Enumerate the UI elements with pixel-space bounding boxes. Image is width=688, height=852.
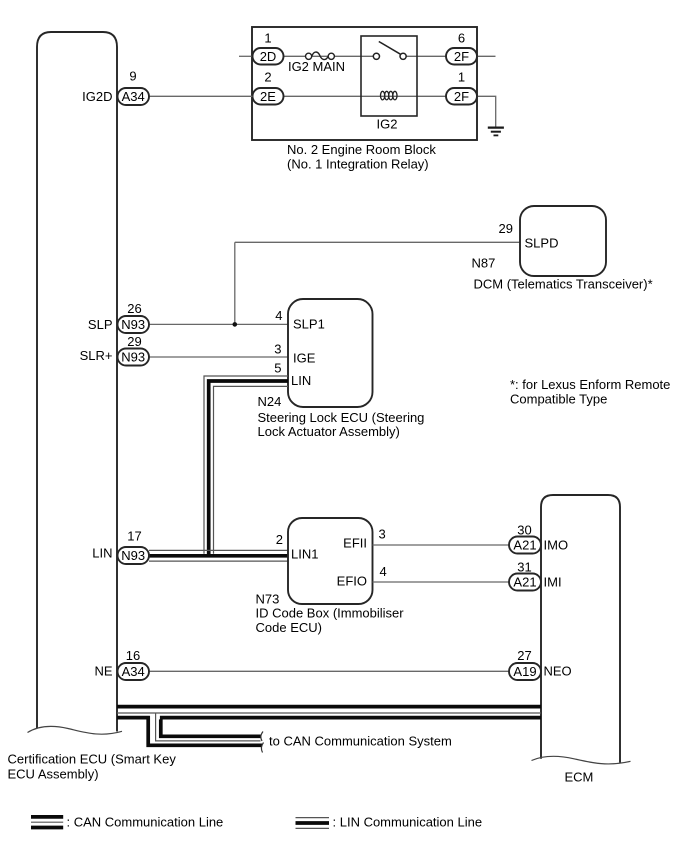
LIN horizontal run N93 to LIN1 (thin top) (149, 549, 288, 551)
svg-text:(No. 1 Integration Relay): (No. 1 Integration Relay) (287, 157, 429, 172)
svg-text:2F: 2F (454, 89, 469, 104)
svg-text:2D: 2D (260, 49, 277, 64)
svg-text:1: 1 (264, 31, 271, 46)
wire to DCM SLPD (235, 241, 520, 243)
svg-text:EFIO: EFIO (337, 574, 367, 589)
svg-text:Certification ECU (Smart Key: Certification ECU (Smart Key (8, 752, 177, 767)
svg-text:27: 27 (517, 648, 531, 663)
svg-text:4: 4 (380, 564, 387, 579)
svg-text:A21: A21 (513, 538, 536, 553)
svg-text:N24: N24 (258, 394, 282, 409)
wire 2E to 2F bottom through coil (284, 95, 447, 97)
relay coil (381, 91, 398, 100)
svg-text:16: 16 (126, 648, 140, 663)
wire stub right of 2F top (477, 55, 496, 57)
Certification ECU (Smart Key ECU Assembly) box (37, 32, 117, 732)
svg-text:IMO: IMO (544, 538, 569, 553)
svg-text:9: 9 (129, 69, 136, 84)
svg-text:N93: N93 (121, 548, 145, 563)
Certification ECU torn bottom wavy edge (28, 726, 123, 734)
wire EFII to A21 (373, 544, 510, 546)
svg-text:ECM: ECM (565, 770, 594, 785)
svg-text:N93: N93 (121, 317, 145, 332)
terminal 2D (253, 48, 284, 65)
terminal A34 pin 16 NE (118, 663, 150, 680)
svg-text:IG2 MAIN: IG2 MAIN (288, 59, 345, 74)
terminal N93 pin 29 SLR+ (118, 349, 150, 366)
svg-text:5: 5 (274, 360, 281, 375)
svg-text:SLP: SLP (88, 317, 113, 332)
CAN branch inner thick (161, 719, 261, 736)
CAN branch outer thick (148, 716, 262, 745)
svg-text:N93: N93 (121, 350, 145, 365)
terminal N93 pin 26 SLP (118, 316, 150, 333)
wire IG2D A34 to 2E (149, 95, 253, 97)
svg-text:17: 17 (127, 529, 141, 544)
svg-text:IG2: IG2 (377, 116, 398, 131)
svg-text:IG2D: IG2D (82, 89, 112, 104)
svg-text:2F: 2F (454, 49, 469, 64)
LIN line thick (209, 381, 288, 556)
svg-text:DCM (Telematics Transceiver)*: DCM (Telematics Transceiver)* (474, 277, 653, 292)
CAN trunk thin line (117, 712, 541, 714)
svg-text:LIN1: LIN1 (291, 547, 318, 562)
svg-text:IMI: IMI (544, 575, 562, 590)
Steering Lock ECU box (288, 299, 373, 407)
LIN horizontal thick (149, 554, 288, 558)
svg-text:SLR+: SLR+ (80, 348, 113, 363)
wire SLR+ to IGE (149, 356, 288, 358)
svg-text:A19: A19 (513, 664, 536, 679)
svg-text:Code ECU): Code ECU) (256, 620, 322, 635)
terminal 2E (253, 88, 284, 105)
svg-text:NE: NE (94, 664, 112, 679)
svg-text:31: 31 (517, 560, 531, 575)
terminal A21 pin 30 IMO (509, 537, 541, 554)
wire relay to 2F top (406, 55, 446, 57)
relay IG2 box (361, 36, 417, 116)
svg-text:ID Code Box (Immobiliser: ID Code Box (Immobiliser (256, 606, 405, 621)
wire 2F bottom to ground (477, 96, 496, 127)
svg-text:Lock Actuator Assembly): Lock Actuator Assembly) (258, 424, 400, 439)
svg-text:A34: A34 (122, 664, 145, 679)
svg-text:N73: N73 (256, 592, 280, 607)
svg-text:EFII: EFII (343, 536, 367, 551)
LIN horizontal thin bottom (149, 560, 288, 562)
svg-text:6: 6 (458, 31, 465, 46)
svg-text:*: for Lexus Enform Remote: *: for Lexus Enform Remote (510, 377, 670, 392)
CAN branch thin (156, 714, 261, 741)
svg-text:26: 26 (127, 301, 141, 316)
ECM box (541, 495, 620, 763)
svg-text:NEO: NEO (544, 664, 572, 679)
legend LIN symbol (296, 817, 330, 819)
svg-text:: LIN Communication Line: : LIN Communication Line (333, 815, 483, 830)
junction node on SLP wire (233, 322, 238, 327)
wire DCM vertical drop (234, 242, 236, 324)
relay switch contacts (373, 42, 406, 60)
svg-text:2: 2 (276, 532, 283, 547)
svg-text:IGE: IGE (293, 351, 316, 366)
svg-text:29: 29 (499, 221, 513, 236)
terminal A34 pin 9 IG2D (118, 88, 150, 105)
svg-text:SLP1: SLP1 (293, 316, 325, 331)
svg-text:29: 29 (127, 334, 141, 349)
terminal 2F pin 6 (446, 48, 477, 65)
terminal 2F pin 1 (446, 88, 477, 105)
svg-text:ECU Assembly): ECU Assembly) (8, 767, 99, 782)
wire SLP to SLP1 (149, 323, 288, 325)
wire 2D to relay (fuse segment) (284, 55, 374, 57)
svg-text:N87: N87 (472, 256, 496, 271)
svg-text:3: 3 (274, 342, 281, 357)
svg-text:LIN: LIN (291, 373, 311, 388)
svg-text:4: 4 (275, 308, 282, 323)
ID Code Box (288, 518, 373, 604)
svg-text:to CAN Communication System: to CAN Communication System (269, 734, 452, 749)
DCM (Telematics Transceiver) box (520, 206, 606, 276)
svg-text:2: 2 (264, 70, 271, 85)
LIN line: steering lock LIN pin to corner, down to tee (outer thin) (204, 376, 288, 554)
svg-text:3: 3 (379, 527, 386, 542)
CAN trunk bottom thick line (left of branch) (117, 716, 150, 720)
legend CAN symbol (31, 815, 63, 819)
wire EFIO to A21 (373, 581, 510, 583)
fuse IG2 MAIN (306, 52, 335, 60)
svg-text:A21: A21 (513, 575, 536, 590)
svg-text:Steering Lock ECU (Steering: Steering Lock ECU (Steering (258, 410, 425, 425)
svg-text:1: 1 (458, 70, 465, 85)
CAN trunk bottom thick line (right of branch) (160, 716, 541, 720)
LIN line inner thin (214, 386, 289, 553)
CAN branch end break marks (261, 732, 263, 742)
svg-text:Compatible Type: Compatible Type (510, 392, 607, 407)
svg-text:: CAN Communication Line: : CAN Communication Line (67, 815, 224, 830)
terminal A19 pin 27 NEO (509, 663, 541, 680)
CAN trunk top thick line (117, 705, 541, 709)
terminal N93 pin 17 LIN (118, 547, 150, 564)
wire NE to NEO (149, 670, 509, 672)
ECM torn bottom wavy edge (532, 756, 631, 764)
wire stub left of 2D (239, 55, 253, 57)
svg-text:SLPD: SLPD (525, 236, 559, 251)
svg-text:LIN: LIN (92, 546, 112, 561)
ground symbol (488, 128, 504, 136)
terminal A21 pin 31 IMI (509, 574, 541, 591)
svg-text:2E: 2E (260, 89, 276, 104)
svg-text:No. 2 Engine Room Block: No. 2 Engine Room Block (287, 142, 436, 157)
svg-text:30: 30 (517, 523, 531, 538)
svg-text:A34: A34 (122, 89, 145, 104)
No. 2 Engine Room Block outline (252, 27, 477, 140)
